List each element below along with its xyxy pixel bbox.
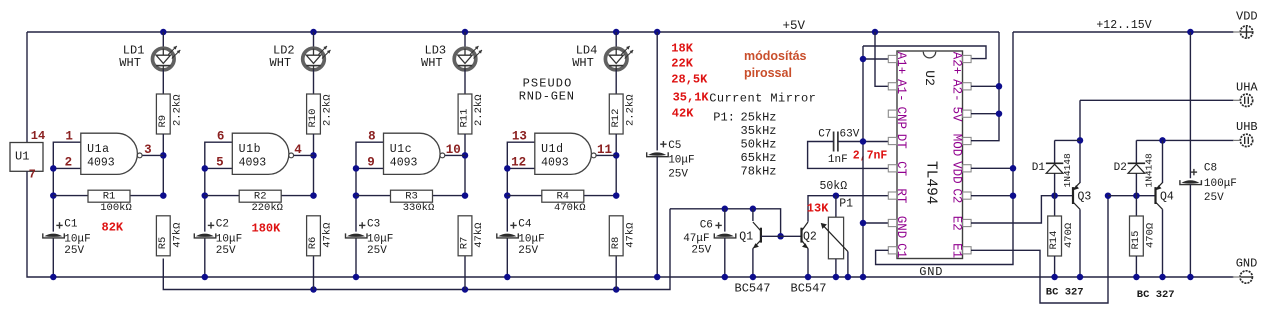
power symbol U1 (4093 supply) (10, 143, 43, 172)
resistor R1 100kΩ (88, 190, 130, 202)
node A1+ junction (860, 56, 867, 63)
wire R bottom to rail2 (464, 256, 466, 290)
wire resistor to gate output node (464, 134, 466, 196)
node Q2 emitter ground (805, 274, 812, 281)
wire gate output (142, 154, 163, 156)
svg-text:9: 9 (367, 155, 375, 169)
capacitor C3 (347, 234, 365, 237)
svg-text:A2+: A2+ (949, 52, 963, 75)
svg-text:R6: R6 (307, 237, 319, 250)
wire LED to resistor (313, 70, 315, 95)
svg-text:E2: E2 (949, 216, 963, 231)
svg-text:100kΩ: 100kΩ (100, 202, 132, 214)
svg-text:P1: P1 (839, 198, 853, 211)
svg-text:R4: R4 (556, 191, 569, 203)
potentiometer P1 (835, 196, 837, 218)
svg-text:C6: C6 (700, 220, 713, 232)
wire cap to ground rail (204, 238, 206, 277)
node UHA/D1 junction (1077, 137, 1084, 144)
wire wrap A1+ to A2+ (863, 46, 986, 59)
wire gate output (294, 154, 314, 156)
wire LED to resistor (464, 70, 466, 95)
svg-text:R11: R11 (459, 109, 471, 128)
wire gate pin b (205, 167, 233, 169)
node C2 junction (1010, 192, 1017, 199)
IC U2 TL494 body (897, 51, 963, 259)
node D2/R15 on Q4 base line (1133, 192, 1140, 199)
resistor R12 2.2kΩ (609, 94, 623, 134)
svg-text:CNP: CNP (894, 107, 908, 130)
wire C2 pin (971, 195, 1013, 197)
IC pin box right E1 (963, 247, 971, 254)
svg-text:2.2kΩ: 2.2kΩ (624, 94, 636, 126)
wire gate output (596, 154, 616, 156)
node Q1 emitter ground (750, 274, 757, 281)
svg-text:7: 7 (29, 168, 36, 182)
svg-text:R15: R15 (1130, 231, 1142, 250)
IC pin box left C1 (888, 247, 896, 254)
svg-text:35kHz: 35kHz (741, 124, 777, 138)
node gate 2 output (310, 152, 317, 159)
wire +12V drop to VDD/C2 and C1 detour (876, 32, 1013, 265)
svg-text:U1b: U1b (239, 143, 262, 156)
svg-text:1N4148: 1N4148 (1144, 153, 1155, 188)
wire Q1 collector lead (752, 209, 754, 221)
resistor R15 470Ω (1130, 216, 1144, 256)
svg-text:C1: C1 (64, 219, 78, 231)
wire cap to ground rail (506, 238, 508, 277)
svg-text:BC 327: BC 327 (1046, 287, 1084, 299)
wire R row (507, 195, 616, 197)
svg-text:78kHz: 78kHz (741, 165, 777, 179)
svg-text:28,5K: 28,5K (671, 73, 708, 87)
node inputs junction (202, 165, 209, 172)
svg-text:2.2kΩ: 2.2kΩ (322, 94, 334, 126)
resistor R2 220kΩ (239, 190, 281, 202)
wire +5V drop right to A2-/5V/MOD (971, 32, 999, 141)
wire A2- pin (971, 85, 999, 87)
node gate 4 output (613, 152, 620, 159)
wire C6 bottom (724, 238, 726, 277)
pad lead (1233, 99, 1240, 101)
svg-text:C4: C4 (518, 219, 532, 231)
wire LED column (464, 32, 466, 49)
IC pin box right C2 (963, 192, 971, 199)
node cap ground (504, 274, 511, 281)
node RC junction left (50, 192, 57, 199)
transistor Q3 BC327 (1072, 187, 1074, 204)
node A2- junction (996, 83, 1003, 90)
svg-text:A2-: A2- (949, 79, 963, 102)
svg-text:Current Mirror: Current Mirror (709, 92, 816, 106)
IC pin box left CNP (888, 110, 896, 117)
svg-text:47μF: 47μF (683, 233, 709, 245)
wire UHA line (1080, 99, 1234, 101)
svg-text:10μF: 10μF (216, 233, 242, 245)
node inputs junction (50, 165, 57, 172)
capacitor C6 (716, 234, 734, 237)
wire C6 top lead (724, 209, 726, 232)
svg-text:Q2: Q2 (803, 231, 817, 244)
svg-text:VDD: VDD (949, 161, 963, 184)
wire resistor to gate output node (313, 134, 315, 196)
svg-text:C1: C1 (894, 243, 908, 258)
svg-text:R10: R10 (307, 109, 319, 128)
diode D1 1N4148 (1046, 162, 1063, 164)
node ground column at rail (860, 274, 867, 281)
svg-text:A1+: A1+ (894, 52, 908, 75)
NAND gate U1a 4093 (81, 133, 138, 174)
svg-text:12: 12 (511, 155, 526, 169)
svg-text:22K: 22K (671, 56, 693, 70)
svg-text:C5: C5 (668, 140, 681, 152)
LED LD3 (WHT) (454, 48, 476, 70)
svg-text:D2: D2 (1114, 162, 1127, 174)
svg-text:47kΩ: 47kΩ (322, 223, 334, 248)
svg-text:8: 8 (368, 129, 376, 143)
wire gate inputs tie (205, 142, 233, 231)
wire P1 wiper to ground (847, 252, 849, 277)
IC pin box left CT (888, 165, 896, 172)
wire LED column (162, 32, 164, 49)
svg-text:pirossal: pirossal (744, 66, 792, 80)
LED LD1 (WHT) (153, 48, 175, 70)
svg-text:25V: 25V (691, 244, 711, 256)
svg-text:UHB: UHB (1236, 120, 1258, 134)
svg-text:Q1: Q1 (739, 231, 753, 244)
node VDD junction (1010, 165, 1017, 172)
resistor R11 2.2kΩ (458, 94, 472, 134)
wire E2 to Q3 base staircase (971, 196, 1073, 223)
node cap ground (353, 274, 360, 281)
wire Q1 emitter lead (752, 248, 754, 277)
node C6 top (722, 206, 729, 213)
svg-text:35,1K: 35,1K (673, 90, 710, 104)
resistor R14 470Ω (1048, 216, 1062, 256)
wire E1 to Q4 base route (971, 196, 1108, 303)
resistor R6 47kΩ (307, 216, 321, 256)
node LED column 3 top (462, 29, 469, 36)
svg-text:13: 13 (512, 129, 527, 143)
svg-text:+12..15V: +12..15V (1096, 19, 1151, 32)
node D1/R14 on Q3 base line (1051, 192, 1058, 199)
wire mirror top (670, 209, 781, 237)
svg-text:A1-: A1- (894, 79, 908, 102)
LED LD2 (WHT) (303, 48, 325, 70)
svg-text:330kΩ: 330kΩ (403, 202, 435, 214)
wire LED to resistor (162, 70, 164, 95)
node DT junction (860, 138, 867, 145)
node R14 ground (1051, 274, 1058, 281)
svg-text:18K: 18K (671, 42, 693, 56)
svg-text:10μF: 10μF (668, 155, 694, 167)
node rail2 column (462, 286, 469, 293)
svg-text:4093: 4093 (390, 157, 418, 170)
node R row column 1 (160, 192, 167, 199)
svg-text:WHT: WHT (421, 56, 443, 70)
svg-text:R9: R9 (157, 115, 169, 128)
IC pin box right MOD (963, 137, 971, 144)
svg-text:82K: 82K (102, 221, 124, 235)
node UHB/Q4 emitter junction (1159, 137, 1166, 144)
node LED column 4 top (613, 29, 620, 36)
svg-text:módosítás: módosítás (744, 49, 807, 63)
wire C5 bottom (656, 157, 658, 277)
svg-text:U1c: U1c (390, 143, 413, 156)
wire LED to resistor (615, 70, 617, 95)
svg-text:MOD: MOD (949, 134, 963, 157)
svg-text:4093: 4093 (239, 157, 267, 170)
svg-text:50kHz: 50kHz (741, 138, 777, 152)
capacitor C2 (196, 234, 214, 237)
capacitor C8 (1181, 180, 1199, 183)
wire Q4 base line (1108, 195, 1156, 197)
svg-text:14: 14 (31, 129, 45, 143)
LED LD4 (WHT) (605, 48, 627, 70)
resistor R4 470kΩ (542, 190, 584, 202)
wire U1 pin 7 to ground rail (27, 171, 1234, 277)
wire R15 top lead (1135, 196, 1137, 216)
node Q1 collector (750, 206, 757, 213)
svg-text:1: 1 (65, 129, 73, 143)
wire gate output (445, 154, 465, 156)
node cap ground (202, 274, 209, 281)
node Q4 base route top (1105, 192, 1112, 199)
svg-text:RND-GEN: RND-GEN (519, 89, 575, 103)
wire LED column (313, 32, 315, 49)
svg-text:C7: C7 (818, 129, 831, 141)
wire GND pin (863, 222, 888, 224)
diode D2 1N4148 (1128, 162, 1145, 164)
wire R bottom to rail2 (615, 256, 617, 290)
transistor Q2 BC547 (800, 228, 802, 243)
svg-text:WHT: WHT (572, 56, 594, 70)
node inputs junction (504, 165, 511, 172)
transistor Q1 BC547 (760, 228, 762, 243)
svg-text:R5: R5 (157, 237, 169, 250)
svg-text:100μF: 100μF (1204, 178, 1237, 190)
svg-text:180K: 180K (252, 222, 282, 236)
svg-text:25V: 25V (518, 245, 538, 257)
IC pin box right A2+ (963, 55, 971, 62)
node RC junction left (504, 192, 511, 199)
svg-text:6: 6 (217, 129, 225, 143)
svg-text:BC 327: BC 327 (1137, 289, 1175, 301)
svg-text:2,7nF: 2,7nF (853, 150, 888, 163)
svg-text:CT: CT (894, 161, 908, 177)
wire cap to ground rail (52, 238, 54, 277)
wire R row (356, 195, 465, 197)
node P1 wiper ground (845, 274, 852, 281)
svg-text:5: 5 (216, 155, 224, 169)
IC pin box left A1- (888, 83, 896, 90)
wire UHA drop to Q3 emitter (1079, 100, 1081, 183)
node LED column 2 top (310, 29, 317, 36)
IC pin box left A1+ (888, 55, 896, 62)
svg-text:U1a: U1a (87, 143, 110, 156)
svg-text:25kHz: 25kHz (741, 111, 777, 125)
svg-text:WHT: WHT (270, 56, 292, 70)
svg-text:47kΩ: 47kΩ (624, 223, 636, 248)
svg-text:E1: E1 (949, 243, 963, 258)
node Q3 collector ground (1077, 274, 1084, 281)
capacitor C5 (648, 152, 666, 155)
IC pin box left GND (888, 219, 896, 226)
svg-text:GND: GND (919, 265, 943, 279)
svg-text:5V: 5V (949, 107, 963, 123)
wire resistor to gate output node (615, 134, 617, 196)
svg-text:2: 2 (65, 155, 73, 169)
svg-text:50kΩ: 50kΩ (820, 180, 848, 193)
svg-text:R14: R14 (1048, 231, 1060, 250)
node gate 3 output (462, 152, 469, 159)
IC pin box left DT (888, 137, 896, 144)
wire C8 bottom (1189, 185, 1191, 277)
svg-text:TL494: TL494 (923, 161, 939, 205)
wire left edge drop to U1 pin 14 (26, 32, 28, 143)
svg-text:R3: R3 (405, 191, 418, 203)
wire VDD pin (971, 167, 1013, 169)
node R row column 2 (310, 192, 317, 199)
svg-text:P1:: P1: (713, 111, 735, 125)
IC pin box right VDD (963, 165, 971, 172)
svg-text:42K: 42K (672, 107, 694, 121)
svg-text:63V: 63V (840, 129, 860, 141)
svg-text:3: 3 (144, 143, 152, 157)
node R row column 4 (613, 192, 620, 199)
svg-text:U1d: U1d (541, 143, 564, 156)
svg-text:U2: U2 (922, 70, 937, 86)
svg-text:VDD: VDD (1236, 9, 1258, 23)
svg-text:+5V: +5V (783, 19, 806, 33)
resistor R9 2.2kΩ (156, 94, 170, 134)
wire gate pin b (356, 167, 384, 169)
wire R15 bottom lead (1135, 256, 1137, 277)
svg-text:R8: R8 (610, 237, 622, 250)
pad lead (1233, 31, 1240, 33)
svg-text:BC547: BC547 (735, 282, 771, 296)
node RC junction left (202, 192, 209, 199)
wire gate inputs tie (356, 142, 384, 231)
node GND pin junction (860, 220, 867, 227)
svg-text:Q3: Q3 (1078, 191, 1092, 204)
node gate 1 output (160, 152, 167, 159)
wire Q3 collector (1079, 209, 1081, 277)
wire D1 leads (1054, 140, 1056, 163)
wire UHB line (1136, 139, 1233, 141)
wire R14 top lead (1054, 196, 1056, 216)
NAND gate U1d 4093 (535, 133, 592, 174)
svg-text:10μF: 10μF (518, 233, 544, 245)
node rail2 column (613, 286, 620, 293)
svg-text:R2: R2 (254, 191, 267, 203)
wire resistor to gate output node (162, 134, 164, 196)
node R15 ground (1133, 274, 1140, 281)
svg-text:65kHz: 65kHz (741, 151, 777, 165)
svg-text:470Ω: 470Ω (1145, 223, 1157, 248)
capacitor C7 1nF (833, 132, 835, 152)
svg-text:25V: 25V (64, 245, 84, 257)
svg-text:GND: GND (1236, 256, 1258, 270)
svg-text:10μF: 10μF (367, 233, 393, 245)
svg-text:C2: C2 (216, 219, 229, 231)
node C8 ground (1187, 274, 1194, 281)
resistor R8 47kΩ (609, 216, 623, 256)
wire cap to ground rail (355, 238, 357, 277)
svg-text:470Ω: 470Ω (1063, 223, 1075, 248)
svg-text:WHT: WHT (119, 56, 141, 70)
IC pin box left RT (888, 192, 896, 199)
wire GND rail 2 (R5-R8 summing) (163, 209, 670, 290)
svg-text:R7: R7 (459, 237, 471, 250)
resistor R10 2.2kΩ (307, 94, 321, 134)
wire gate pin b (507, 167, 535, 169)
IC pin box right E2 (963, 219, 971, 226)
svg-text:4093: 4093 (87, 157, 115, 170)
IC pin box right 5V (963, 110, 971, 117)
connector VDD (1240, 26, 1252, 38)
svg-text:47kΩ: 47kΩ (473, 223, 485, 248)
svg-text:13K: 13K (807, 201, 829, 215)
wire C8 top (1189, 32, 1191, 178)
node 5V junction (996, 110, 1003, 117)
svg-text:25V: 25V (367, 245, 387, 257)
svg-text:11: 11 (597, 143, 612, 157)
node cap ground (50, 274, 57, 281)
svg-text:R1: R1 (103, 191, 116, 203)
pad lead (1233, 139, 1240, 141)
svg-text:Q4: Q4 (1160, 191, 1174, 204)
svg-text:BC547: BC547 (791, 282, 827, 296)
NAND gate U1b 4093 (232, 133, 289, 174)
svg-text:GND: GND (894, 216, 908, 239)
connector GND (1240, 271, 1252, 283)
wire Q2 emitter (807, 248, 809, 277)
svg-text:DT: DT (894, 134, 908, 150)
svg-text:25V: 25V (668, 168, 688, 180)
connector UHB (1240, 134, 1252, 146)
node P1 top (833, 192, 840, 199)
node C5 ground (654, 274, 661, 281)
wire A1- from +5V (875, 32, 888, 86)
wire R14 bottom lead (1054, 256, 1056, 277)
node C8 top (1187, 29, 1194, 36)
node +5V to A1- drop (872, 29, 879, 36)
wire Q4 emitter drop (1162, 140, 1164, 183)
svg-text:220kΩ: 220kΩ (251, 202, 283, 214)
svg-text:C2: C2 (949, 188, 963, 203)
wire R row (205, 195, 314, 197)
node LED column 1 top (160, 29, 167, 36)
wire +12..15V rail (1013, 31, 1234, 33)
wire Q2 collector to RT (808, 196, 888, 222)
node P1 bottom ground (833, 274, 840, 281)
svg-text:10: 10 (446, 143, 461, 157)
svg-text:RT: RT (894, 188, 908, 204)
wire D1 top to UHA column (1055, 139, 1080, 141)
svg-text:UHA: UHA (1236, 80, 1258, 94)
svg-text:47kΩ: 47kΩ (172, 223, 184, 248)
capacitor C4 (498, 234, 516, 237)
svg-text:C3: C3 (367, 219, 380, 231)
node Q4 collector ground (1159, 274, 1166, 281)
node C6 ground (722, 274, 729, 281)
wire Q1 base to Q2 base (761, 235, 802, 237)
wire C7 right to DT (838, 141, 888, 143)
IC pin box right A2- (963, 83, 971, 90)
svg-text:U1: U1 (15, 150, 29, 164)
resistor R5 47kΩ (156, 216, 170, 256)
